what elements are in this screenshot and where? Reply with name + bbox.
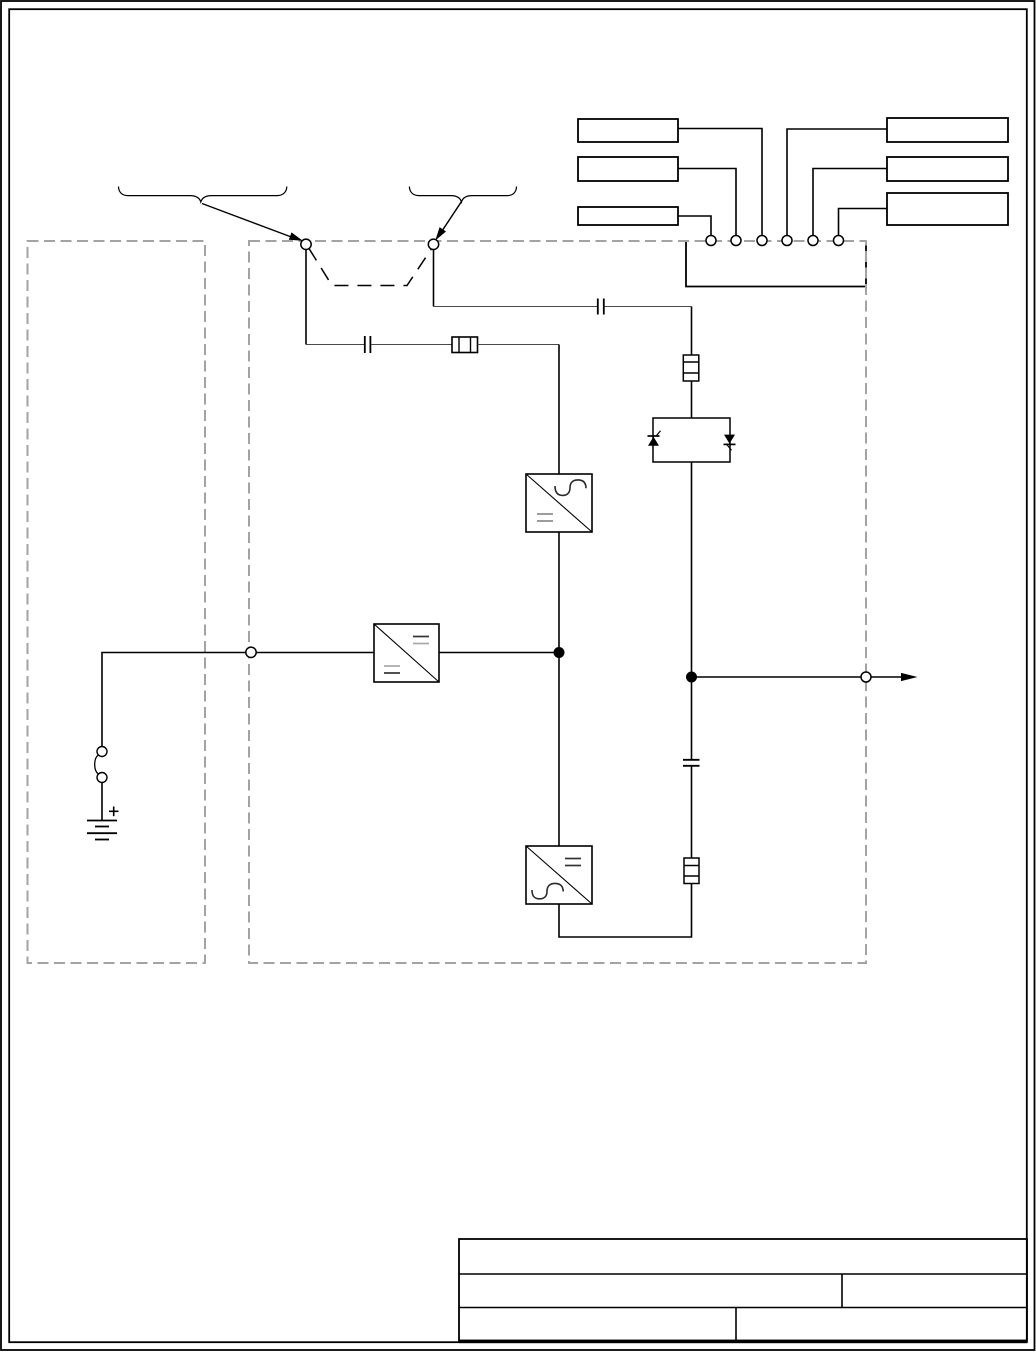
breaker arc: [95, 755, 99, 774]
label box R1: [887, 118, 1008, 142]
wire corner down to rectifier U1: [558, 345, 560, 475]
wire DC/DC U2 to DC link junction: [439, 652, 559, 654]
brace callout left: [119, 187, 287, 203]
node A bypass input: [301, 239, 311, 249]
fuse F1: [683, 355, 699, 381]
title block row line 1: [459, 1273, 1027, 1275]
capacitor C1: [598, 299, 604, 315]
capacitor C3: [683, 760, 700, 766]
wire fuse F3 to inverter U3: [559, 884, 692, 938]
wire capacitor C3 to fuse F3: [691, 766, 693, 858]
dashed enclosure UPS cabinet: [249, 241, 866, 963]
output arrowhead: [901, 673, 918, 681]
battery BT1: [87, 821, 117, 840]
label box L1: [578, 119, 678, 142]
open bypass switch dashed link: [309, 249, 431, 286]
static bypass switch box Q1: [653, 418, 730, 462]
wire fuse F1 to static switch: [691, 381, 693, 418]
DC/DC converter U2: [374, 624, 439, 682]
label box R2: [887, 157, 1008, 181]
arrow from right brace to mains input node: [435, 202, 461, 241]
wire fuse F2 to rectifier corner: [478, 344, 560, 346]
wire static switch to output junction to capacitor C3: [691, 462, 693, 759]
label box L3: [578, 207, 678, 225]
terminal 1: [706, 236, 716, 246]
arrow from left brace to bypass input node: [202, 204, 303, 241]
wire R2 to terminal 5: [813, 169, 887, 236]
title block divider row2: [841, 1274, 843, 1308]
wire L2 to terminal 2: [678, 169, 736, 236]
inverter U3 DC/AC: [526, 846, 592, 904]
fuse F3: [684, 858, 699, 884]
label box L2: [578, 157, 678, 181]
node B mains input: [428, 239, 438, 249]
wire breaker to battery: [101, 783, 103, 821]
terminal 2: [731, 236, 741, 246]
terminal 4: [782, 236, 792, 246]
title block divider row3: [735, 1308, 737, 1341]
title block frame: [459, 1239, 1027, 1341]
breaker contact bottom: [97, 773, 107, 783]
wire rectifier U1 to inverter U3 DC link: [558, 532, 560, 846]
brace callout right: [409, 187, 516, 203]
wire L1 to terminal 3: [678, 129, 762, 236]
wire corner down to fuse F1: [691, 307, 693, 356]
wire node B down: [433, 250, 435, 307]
wire capacitor C2 to fuse F2: [371, 344, 452, 346]
terminal 3: [757, 236, 767, 246]
junction output: [686, 672, 697, 683]
wire L3 to terminal 1: [678, 216, 711, 236]
junction DC link: [554, 647, 565, 658]
rectifier U1 AC/DC: [526, 474, 592, 532]
dashed enclosure battery cabinet: [28, 241, 206, 963]
wire node B to capacitor C1: [434, 306, 598, 308]
fuse F2: [452, 337, 478, 353]
capacitor C2: [365, 336, 371, 353]
wire capacitor C1 to corner: [605, 306, 692, 308]
wire node A to capacitor C2: [306, 344, 364, 346]
thyristor right (down): [724, 435, 736, 451]
terminal 6: [834, 236, 844, 246]
node output at cabinet boundary: [861, 672, 871, 682]
node battery cabinet boundary: [246, 647, 256, 657]
thyristor left (up): [648, 431, 661, 446]
title block row line 2: [459, 1307, 1027, 1309]
battery plus sign: [109, 807, 119, 817]
wire R3 to terminal 6: [839, 209, 888, 236]
breaker contact top: [97, 747, 107, 757]
wire bus below terminal circles: [686, 241, 866, 287]
wire output arrow: [692, 676, 904, 678]
label box R3: [887, 193, 1008, 225]
terminal 5: [808, 236, 818, 246]
wire node A down: [305, 250, 307, 345]
title block thick bottom edge: [459, 1340, 1027, 1343]
wire battery to DC/DC U2: [102, 653, 374, 747]
wire R1 to terminal 4: [787, 129, 887, 236]
